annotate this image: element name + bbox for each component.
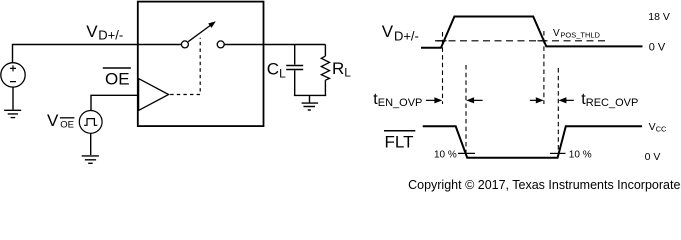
threshold tick at VD falling crossing (538, 40, 547, 42)
ground G2 (82, 156, 99, 163)
dashed marker line 1 (VD rising threshold) (442, 32, 444, 104)
resistor RL branch wire bottom (324, 80, 326, 95)
svg-text:10 %: 10 % (569, 150, 592, 161)
dashed marker line 2 (FLT falling) (465, 65, 467, 157)
arrow tREC_OVP left (530, 97, 544, 103)
threshold tick at VD rising crossing (435, 40, 447, 42)
resistor RL branch wire top (324, 45, 326, 57)
dashed marker line 4 (FLT rising) (557, 68, 559, 155)
dashed threshold line VPOS_THLD (437, 40, 607, 42)
switch S1 arm with arrowhead (188, 21, 216, 41)
wire VOE source to buffer input (91, 95, 138, 110)
wire switch to load (224, 44, 325, 46)
svg-text:tEN_OVP: tEN_OVP (373, 91, 422, 109)
resistor RL (321, 56, 329, 80)
dashed marker line 3 (VD falling threshold) (543, 31, 545, 104)
svg-text:0 V: 0 V (645, 151, 661, 163)
tick 10% left (458, 152, 475, 154)
wire load to ground (309, 95, 311, 102)
wire source top to switch (13, 45, 182, 63)
svg-text:10 %: 10 % (434, 150, 457, 161)
tick 10% right (550, 152, 566, 154)
switch S1 left contact (181, 41, 188, 48)
switch S1 right contact (217, 41, 224, 48)
ground G3 (302, 103, 319, 110)
svg-text:CL: CL (267, 59, 286, 80)
dashed control line buffer to switch (170, 38, 200, 95)
wire source bottom to ground (12, 87, 14, 110)
svg-text:RL: RL (332, 59, 351, 80)
svg-text:OE: OE (105, 69, 130, 88)
svg-text:FLT: FLT (385, 132, 414, 151)
waveform FLT (423, 126, 642, 157)
label OE (overline) (103, 68, 131, 88)
svg-text:V: V (47, 111, 59, 130)
label VOE (47, 111, 74, 131)
svg-text:VD+/-: VD+/- (86, 22, 123, 43)
DUT box U1 (138, 2, 264, 127)
svg-text:VPOS_THLD: VPOS_THLD (553, 28, 601, 40)
label FLT (overline) (384, 131, 415, 152)
capacitor CL (286, 66, 303, 70)
svg-text:tREC_OVP: tREC_OVP (581, 91, 638, 109)
pulse source V2 (VOE) (79, 111, 102, 134)
svg-text:VD+/-: VD+/- (382, 22, 419, 43)
wire load bottom (294, 94, 326, 96)
svg-text:OE: OE (60, 120, 74, 131)
arrow tEN_OVP right (466, 97, 482, 103)
arrow tREC_OVP right (559, 97, 574, 103)
buffer U2 (OE driver) (139, 79, 169, 111)
arrow tEN_OVP left (426, 97, 442, 103)
svg-text:VCC: VCC (649, 121, 667, 134)
capacitor CL branch wire bottom (294, 70, 296, 95)
voltage source V1 (VD+/-) (1, 63, 25, 87)
capacitor CL branch wire top (294, 45, 296, 65)
wire VOE source to ground (90, 133, 92, 155)
waveform VD+/- (421, 17, 643, 48)
svg-text:Copyright © 2017, Texas Instru: Copyright © 2017, Texas Instruments Inco… (408, 178, 681, 192)
svg-text:18 V: 18 V (648, 11, 670, 23)
svg-text:0 V: 0 V (649, 42, 666, 54)
ground G1 (4, 110, 21, 117)
